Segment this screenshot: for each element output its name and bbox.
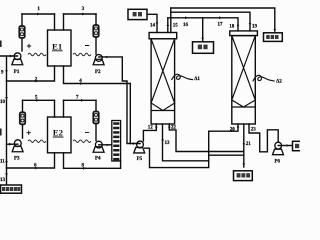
svg-text:19: 19 (252, 25, 258, 30)
svg-text:16: 16 (183, 23, 189, 28)
svg-text:P4: P4 (95, 157, 101, 162)
svg-text:22: 22 (171, 126, 177, 131)
svg-text:13: 13 (165, 141, 171, 146)
svg-text:10: 10 (0, 100, 6, 105)
svg-text:23: 23 (251, 128, 256, 133)
svg-text:P5: P5 (137, 157, 143, 162)
svg-text:P1: P1 (14, 70, 20, 75)
svg-text:21: 21 (246, 142, 252, 147)
svg-text:P2: P2 (95, 70, 101, 75)
svg-text:15: 15 (173, 24, 179, 29)
svg-text:13: 13 (0, 178, 6, 183)
svg-text:E1: E1 (52, 41, 62, 51)
svg-text:12: 12 (148, 126, 154, 131)
svg-text:20: 20 (230, 128, 236, 133)
svg-text:Δ1: Δ1 (194, 77, 200, 82)
svg-text:Δ2: Δ2 (276, 79, 282, 84)
svg-text:17: 17 (218, 22, 224, 27)
svg-text:14: 14 (150, 24, 156, 29)
svg-text:11: 11 (0, 160, 5, 165)
svg-text:E2: E2 (53, 128, 64, 138)
svg-text:18: 18 (229, 25, 235, 30)
svg-text:P6: P6 (275, 160, 281, 165)
svg-text:P3: P3 (14, 157, 20, 162)
